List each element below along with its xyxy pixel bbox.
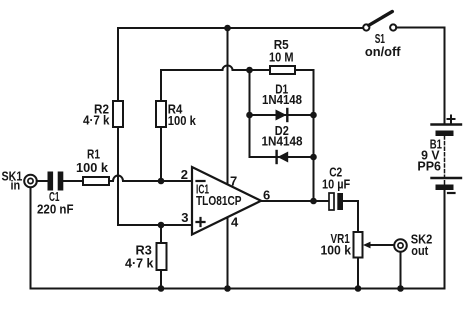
op-amp minus symbol [197,180,205,182]
svg-text:on/off: on/off [365,44,401,59]
node SK2 ground junction [397,285,404,292]
svg-text:out: out [411,243,429,258]
svg-text:4·7 k: 4·7 k [125,256,154,271]
svg-text:220 nF: 220 nF [37,202,74,217]
wire diode block right vertical [313,70,315,201]
VR1 wiper arrow [363,242,394,249]
wire D1 row [250,114,314,116]
svg-text:1N4148: 1N4148 [262,92,302,107]
wire R4 bottom [160,127,162,181]
wire C1 to R1 [63,180,84,182]
node R3 ground [158,285,165,292]
wire VR1 bottom [357,258,359,289]
svg-text:6: 6 [263,188,270,203]
resistor R4 [156,101,166,127]
resistor R3 [157,243,167,270]
wire output pin6 [261,200,329,202]
svg-text:100 k: 100 k [321,243,352,258]
wire R2 column top [117,28,119,101]
connector SK1 [24,175,37,188]
potentiometer VR1 [354,232,363,258]
node D1 left [246,112,253,119]
wire switch to battery corner [396,28,444,124]
wire pin7 supply line [227,28,229,184]
svg-text:PP6: PP6 [417,159,441,174]
svg-text:TLO81CP: TLO81CP [196,193,242,208]
svg-text:7: 7 [230,174,237,189]
switch S1 [363,12,396,31]
battery plus sign [448,116,455,123]
wire feedback row with hop over pin7 line [161,66,270,71]
node pin3/R3 junction [158,222,165,229]
wire D2 row [250,156,314,158]
resistor R1 [83,177,109,185]
capacitor C1 [48,172,64,191]
svg-text:4: 4 [231,215,239,230]
wire R1 to pin2 with hop over R2 column [109,176,192,182]
svg-text:2: 2 [181,167,188,182]
wire battery to bottom-right corner [401,190,445,289]
wire R4 top corner [160,70,162,101]
wire SK2 ground [400,252,402,289]
node D2 right [310,154,317,161]
op-amp U1 triangle [192,167,261,235]
diode D2 [277,151,289,163]
svg-text:100 k: 100 k [168,113,197,128]
node top rail pin7 junction [224,25,231,32]
node D1 right [310,112,317,119]
wire diode block left vertical [249,70,251,157]
wire R2 column to pin3 row [118,127,192,225]
svg-text:1N4148: 1N4148 [262,134,303,149]
node output junction [310,198,317,205]
resistor R2 [113,101,123,127]
wire SK1 to C1 [37,180,48,182]
battery B1 [432,125,462,191]
node feedback left junction [246,67,253,74]
svg-text:4·7 k: 4·7 k [83,113,110,128]
wire C2 to VR1 [343,201,358,232]
wire top rail [118,27,363,29]
op-amp plus symbol [197,218,205,226]
wire R3 bottom [160,270,162,289]
node pin4 ground [224,285,231,292]
svg-text:100 k: 100 k [76,160,109,175]
wire bottom rail [31,188,401,289]
diode D1 [276,109,288,121]
wire R5 right [295,69,314,71]
svg-text:10 M: 10 M [269,50,294,65]
svg-text:10 µF: 10 µF [322,177,350,192]
battery minus sign [448,192,455,194]
resistor R5 [270,66,295,74]
node VR1 ground [355,285,362,292]
wire R3 top [160,225,162,243]
capacitor C2 [329,193,343,210]
svg-text:3: 3 [181,210,188,225]
node pin2/R4 junction [158,178,165,185]
connector SK2 [394,239,407,252]
svg-text:in: in [11,178,21,193]
wire pin4 ground line [227,218,229,289]
